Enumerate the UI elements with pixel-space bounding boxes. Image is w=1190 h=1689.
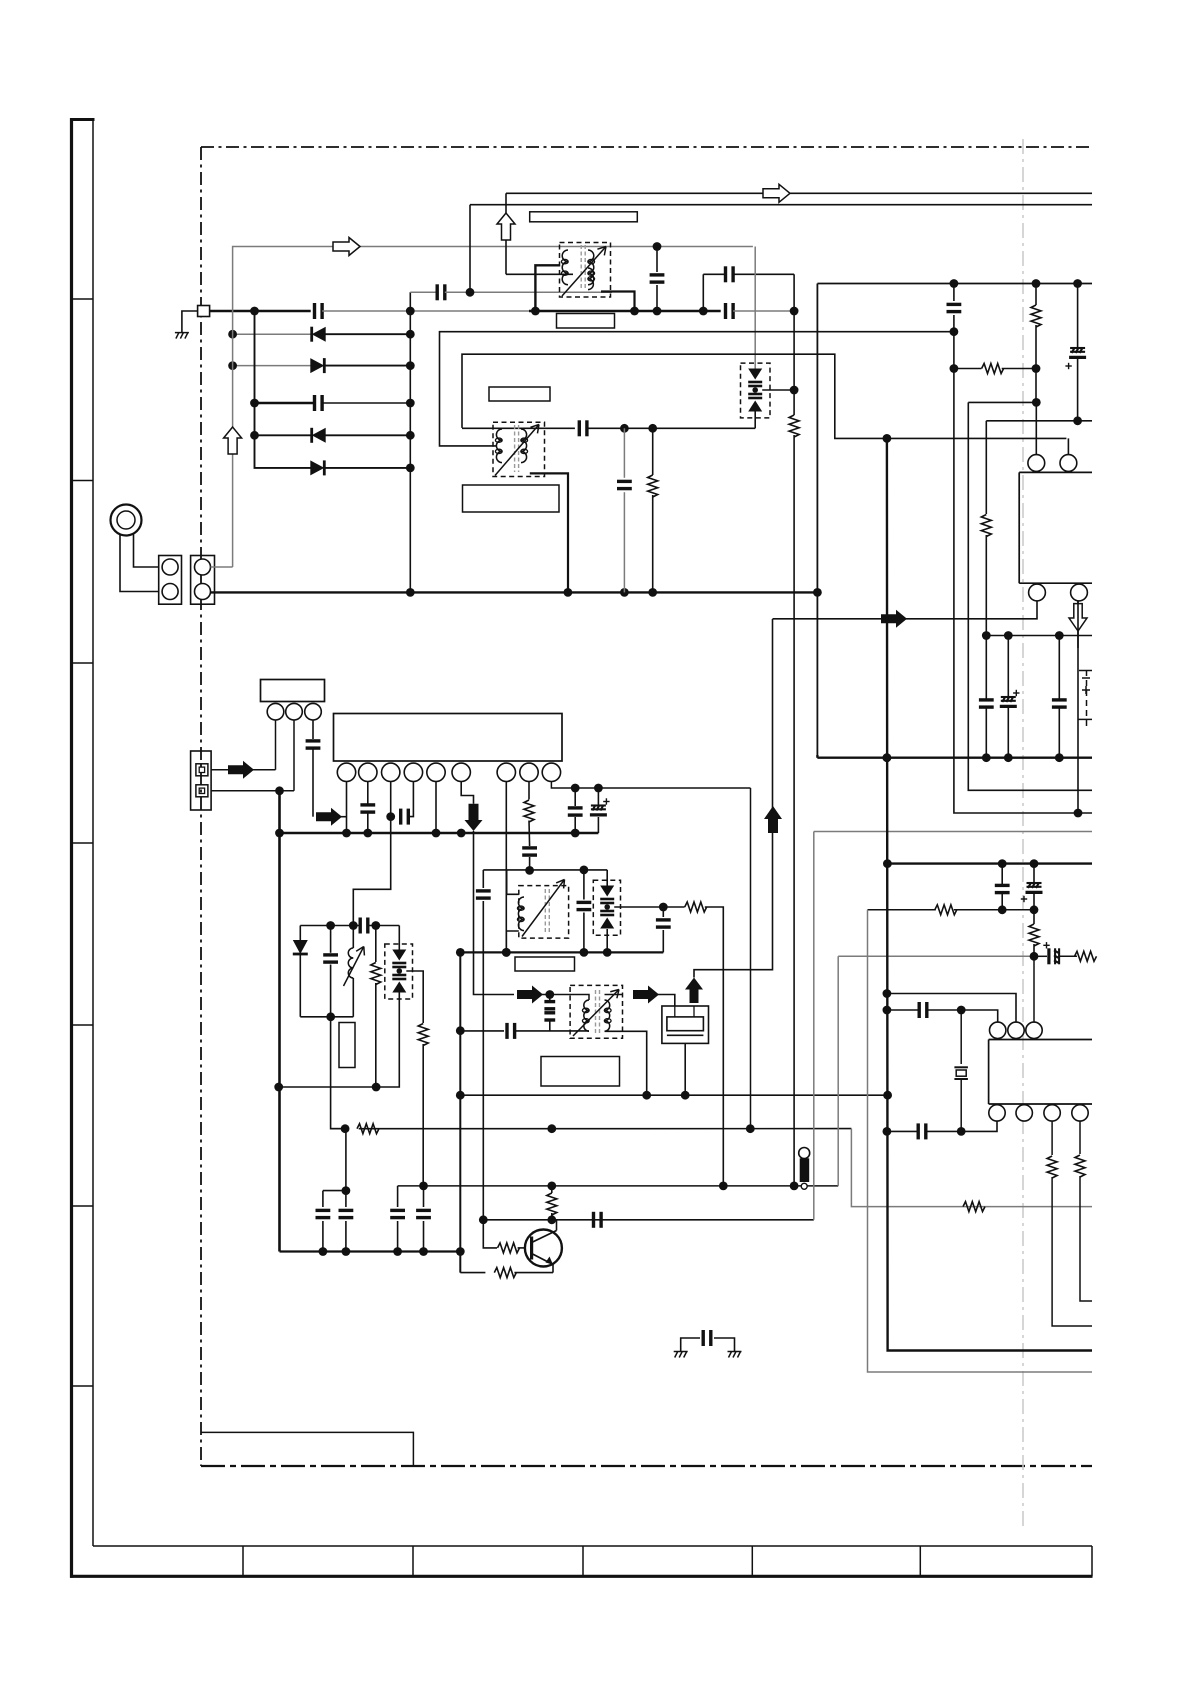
wire bridge y1190 (323, 1190, 346, 1192)
bus line upper y193 (506, 192, 1092, 194)
thick rail x887 (887, 438, 1092, 1350)
IF transformer T4 dashed box (570, 985, 622, 1038)
wire x750 drop (750, 788, 752, 1129)
signal flow open arrow right (333, 238, 360, 256)
IC3 pin7 wire (505, 782, 507, 953)
IC3 pin8 chain resistor R9 capacitor C21 (528, 782, 530, 800)
label box (osc coil) (339, 1023, 355, 1068)
resistor R13 (357, 1124, 379, 1134)
antenna symbol (111, 505, 142, 536)
connector CN4 housing (261, 680, 325, 702)
trimmer coil L1 (352, 926, 354, 949)
T4 adjust arrow (573, 990, 619, 1037)
transformer T3 coil (518, 897, 524, 931)
solid arrow up (det out) (685, 978, 703, 1004)
IC3 box (AM tuner IC) (334, 714, 563, 762)
page frame left border inner line (92, 120, 94, 1547)
T4 core (595, 990, 597, 1034)
resistor R6 (1035, 284, 1037, 306)
resistor R1 drop (652, 428, 654, 475)
capacitor C36 (345, 1129, 347, 1207)
wire route w1 (T2 top feed) (440, 332, 952, 446)
IC2 pin wire with resistor R22 (1079, 1121, 1081, 1154)
open arrow down from IC1 pin4 (1069, 604, 1087, 631)
wire x794 drop (793, 274, 795, 311)
IC3 pin1 wire (346, 782, 348, 834)
page frame left border outer line (70, 118, 73, 1578)
capacitor C10 (724, 266, 727, 282)
wire row5 (255, 434, 312, 436)
IC3 bottom pins (337, 763, 355, 781)
resistor R11 (418, 1024, 428, 1046)
capacitor C27 drop (583, 870, 585, 900)
wire antenna line drop into VD1 (754, 247, 756, 369)
wire CN3b (211, 790, 294, 792)
wire c2 drop (293, 720, 295, 791)
wire y1031 row with capacitor C31 (460, 1030, 504, 1032)
wire x817 main vertical (816, 284, 818, 758)
IC3 pin3 long drop to FM osc (353, 817, 390, 926)
riser x703 (702, 274, 704, 311)
capacitor C33 drop from y1186 (397, 1186, 399, 1207)
wire VD1 mid tap (762, 389, 794, 391)
transformer T3 core (544, 889, 546, 934)
wire IC1 pin4 down rail (1077, 601, 1079, 813)
wire det out y619 with arrow (773, 601, 1038, 619)
resistor R5 (789, 415, 799, 437)
bus_B y1095 (460, 1094, 887, 1096)
label box under T2 (463, 485, 560, 512)
wire x330.6 long drop (331, 965, 346, 1129)
wire row4 (255, 402, 314, 404)
antenna wire 1 (120, 534, 159, 592)
connector CN3 housing (191, 751, 212, 810)
wire x867 route (868, 910, 1093, 1372)
connector CN2 housing (191, 556, 215, 605)
wire base rail y1220 (483, 1219, 814, 1221)
varactor VD2 dashed box (385, 944, 413, 999)
bus3 y1251 ground rail (280, 1250, 461, 1252)
transformer T2 primary coil (496, 429, 502, 463)
resistor R12 (663, 906, 684, 908)
varactor VD3 pair (606, 870, 608, 886)
capacitor C8 at x657 (656, 247, 658, 273)
label box under T1 (557, 314, 615, 329)
wire route w2 (AGC to IC1) (462, 354, 1066, 438)
wire x986 drop with resistor R8 (985, 421, 987, 514)
wire row1 left (black) (210, 310, 311, 312)
resistor R10 (375, 926, 377, 963)
wire y1017 (300, 1016, 353, 1018)
ceramic discriminator CF1 (662, 1006, 709, 1043)
tuner shield box dash-dot left edge (200, 147, 202, 1466)
wire y635 rail (986, 635, 1092, 637)
capacitor C35 (322, 1191, 324, 1207)
wire y368 with resistor R7 (954, 368, 982, 370)
connector CN1 housing (159, 556, 182, 605)
varactor VD1 dashed box (741, 363, 771, 418)
transformer T1 secondary bottom lead (601, 292, 635, 312)
capacitor C17 (1058, 636, 1060, 700)
wire VD1 bottom (754, 411, 756, 429)
page frame bottom border outer line (70, 1575, 1093, 1578)
IC3 pin6 wire with solid down arrow (461, 782, 473, 804)
wire VD3 mid tap y907 (614, 906, 663, 908)
IC1 top pin 2 (1060, 455, 1077, 472)
connector CN1 pin a (162, 559, 178, 575)
riser x470 (469, 205, 471, 293)
solid arrow right into IC3 pin1 (316, 808, 342, 826)
wire VD2 mid tap (406, 971, 423, 1023)
wire x1034 to IC2 pin (1033, 956, 1035, 1022)
IC2 pin wire with resistor R21 (1051, 1121, 1053, 1155)
label box near T4 (515, 957, 575, 971)
label box under T4 (541, 1057, 620, 1087)
wire y1131 with capacitor C41 (887, 1130, 917, 1132)
IC1 box (FM/AM IF IC, cut at page edge) (1018, 472, 1020, 583)
capacitor chain C29 C30 (549, 995, 551, 1001)
wire VD2 bottom to bus (279, 993, 400, 1088)
wire y1010 with capacitor C40 (887, 1009, 918, 1011)
transformer T2 secondary bottom lead (530, 473, 568, 592)
node square on shield (198, 306, 210, 317)
resistor R19 (935, 905, 957, 915)
bus2 y833 (280, 832, 599, 834)
diode D5 (299, 926, 301, 942)
wire y832 route right (814, 831, 1092, 833)
IC1 bottom pin 3 (1029, 584, 1046, 601)
page frame bottom border inner line (93, 1545, 1092, 1547)
IC3 pin3 wire (390, 782, 392, 817)
page frame left border ticks (72, 298, 94, 300)
label box in route channel (489, 387, 550, 401)
CF1 bottom wire (684, 1043, 686, 1095)
wire y283 top rail (817, 283, 1092, 285)
electrolytic C32 horizontal (1034, 955, 1047, 957)
diode D2 (310, 358, 324, 373)
wire long x794 tuning rail (793, 311, 795, 415)
transformer T1 core (580, 245, 582, 290)
transformer T2 secondary coil (521, 429, 527, 463)
capacitor C42 to grounds (681, 1338, 700, 1351)
ground left (674, 1352, 688, 1358)
bus osc y952 (460, 951, 663, 953)
capacitor C2 (313, 395, 316, 411)
capacitor C3 (436, 284, 439, 300)
IC2 top pins (990, 1022, 1006, 1038)
wire vertical x410 matrix feed (409, 292, 411, 592)
wire x1036 to IC1 pin (1035, 369, 1037, 403)
varactor VD2 pair (392, 950, 406, 961)
wire x968 long drop (968, 402, 1092, 790)
wire y402 branch (968, 401, 1036, 403)
electrolytic C14 (1077, 284, 1079, 349)
T3 feed hooks (507, 870, 519, 894)
wire x838 route up (837, 956, 839, 1186)
varactor VD1 pair (748, 369, 762, 380)
IC1 bottom pin 4 (1071, 584, 1088, 601)
IC3 pin5 wire (435, 782, 437, 834)
main vertical rail x279.5 (278, 791, 281, 1252)
IC1 top pin 1 (1028, 455, 1045, 472)
connector CN3 pin square a (196, 764, 208, 776)
capacitor C15 (985, 636, 987, 700)
wire y910 row (868, 909, 936, 911)
wire y311 right to node (gray) (733, 310, 794, 312)
wire x473.5 to mixer (474, 831, 515, 995)
wire w2 drop to IC1 pin (1067, 438, 1069, 454)
crystal X1 (960, 1010, 962, 1064)
varactor VD3 dashed box (593, 880, 620, 935)
transistor Q1 (525, 1230, 562, 1267)
wire y292 (gray) (410, 291, 437, 293)
connector CN2 pin a (195, 559, 211, 575)
transformer T1 secondary lower coil (588, 268, 593, 290)
resistor R18 emitter (460, 1272, 485, 1274)
T4 secondary out with arrow (605, 994, 623, 996)
wire row6 (255, 435, 312, 468)
IC2 box (stereo decoder, cut at page edge) (988, 1040, 990, 1105)
capacitor C22 (574, 788, 576, 806)
capacitor C24 (359, 918, 362, 934)
resistor R17 collector (551, 1186, 553, 1193)
wire x851 route (851, 1129, 1092, 1207)
transformer T1 dashed box (560, 243, 611, 298)
wire det route to y619 (694, 619, 773, 978)
wire y993 to IC2 (887, 994, 1016, 1023)
capacitor C20 between pin3/pin4 (399, 809, 402, 825)
capacitor C11 (578, 420, 581, 436)
transformer T2 dashed box (493, 422, 545, 476)
IC2 bottom pins (989, 1105, 1005, 1121)
capacitor C37 (592, 1212, 595, 1228)
capacitor C9 (724, 303, 727, 319)
T4 primary top bend (588, 995, 589, 1001)
wire x954 long drop (954, 332, 1092, 813)
ground right (728, 1352, 742, 1358)
connector CN2 pin b (195, 584, 211, 600)
IC3 pin9 row y788 (551, 782, 750, 789)
connector CN4 pin 3 (305, 703, 322, 720)
T4 primary coil (584, 1000, 589, 1031)
ground (175, 333, 189, 339)
page frame bottom-right closure (1091, 1546, 1093, 1576)
diode D4 (310, 460, 324, 475)
capacitor C38 (1001, 864, 1003, 885)
wire row2 (gray+diode) (233, 333, 311, 335)
solid arrow right on y619 (881, 610, 907, 628)
capacitor C28 (662, 907, 664, 917)
tuner shield box dash-dot top edge (201, 146, 1092, 148)
wire x483 rail cap C26 (482, 870, 484, 888)
wire row3 (233, 365, 311, 367)
capacitor C34 drop (423, 1186, 425, 1207)
resistor R16 base (483, 1220, 497, 1248)
wire main bus y592 from CN2b (211, 591, 818, 593)
wire x814 route down (813, 832, 815, 1220)
wire into T1 secondary (506, 273, 573, 275)
resistor R14 (963, 1202, 985, 1212)
transformer T1 primary top lead (535, 265, 559, 311)
wire bus y311 mid (black) (529, 310, 721, 312)
wire x460 long (459, 952, 461, 1272)
capacitor C25 (330, 926, 332, 953)
wire into VD2 (398, 926, 400, 950)
T4 secondary bottom out (605, 1031, 647, 1095)
capacitor C12 gray drop (623, 428, 625, 478)
wire y1186 long (398, 1185, 839, 1187)
capacitor C13 (953, 284, 955, 302)
bus y758 (817, 757, 1092, 759)
wire c1 drop (275, 720, 277, 770)
capacitor C18 from CN4 pin3 (312, 720, 314, 739)
wire x1034 with resistor R20 (1033, 910, 1035, 924)
capacitor C1 (313, 303, 316, 319)
label box near bus (530, 212, 638, 222)
diode D3 (312, 428, 326, 443)
connector CN1 pin b (162, 584, 178, 600)
transformer T2 core (514, 425, 516, 472)
transformer T1 secondary coil (588, 250, 594, 285)
page frame left border top cap (70, 118, 95, 121)
wire y863 rail (887, 862, 1092, 864)
wire osc row y925 (300, 925, 358, 927)
wire CN2a to antenna riser (gray) (211, 566, 233, 568)
wire row1 right (gray) (322, 310, 529, 312)
wire y274 caps pair (703, 273, 724, 275)
page frame bottom border ticks (242, 1546, 244, 1576)
T4 secondary coil (605, 1000, 610, 1031)
transformer T2 adjust arrow (495, 425, 539, 476)
IC3 pin2 wire with capacitor C19 (367, 782, 369, 805)
transformer T3 adjust arrow (522, 880, 565, 937)
connector CN4 pin 2 (286, 703, 303, 720)
antenna feed wire with arrow (gray) (233, 247, 753, 568)
wire vertical x254.5 (254, 311, 256, 435)
transformer T1 primary coil (562, 250, 568, 285)
solid arrow up on det rail (764, 806, 782, 833)
solid arrow right (mixer in) (517, 986, 543, 1004)
riser x506 with open up arrow (505, 193, 507, 213)
wire y421 (986, 420, 1092, 422)
wire y1128 long (359, 1128, 852, 1130)
battery dashed symbol at page edge (1078, 670, 1092, 727)
wire row y428 (462, 427, 575, 429)
connector CN3 pin square b (196, 785, 208, 797)
wire y870 rail (483, 869, 607, 871)
electrolytic C23 (597, 788, 599, 806)
page fold dash-dot line (1022, 139, 1024, 1530)
resistor R15 (1075, 951, 1097, 961)
connector CN4 pin 1 (267, 703, 284, 720)
wire CN3a with solid arrow (211, 769, 275, 771)
transformer T3 dashed box (519, 886, 569, 939)
transformer T1 adjust arrow (562, 247, 606, 297)
ground wire from shield node (182, 311, 198, 332)
antenna wire 2 (134, 533, 159, 567)
fuse/jumper F1 (799, 1148, 810, 1159)
tuner shield box dash-dot bottom edge (201, 1465, 1092, 1467)
wire y956 gray rail (838, 955, 1034, 957)
open arrow right on upper bus (763, 184, 790, 202)
bottom label box (201, 1432, 413, 1466)
signal flow open arrow up on antenna wire (224, 427, 242, 454)
diode D1 (312, 327, 326, 342)
electrolytic C39 (1033, 864, 1035, 884)
bus line lower y205 (470, 204, 1092, 206)
electrolytic C16 (1007, 636, 1009, 698)
